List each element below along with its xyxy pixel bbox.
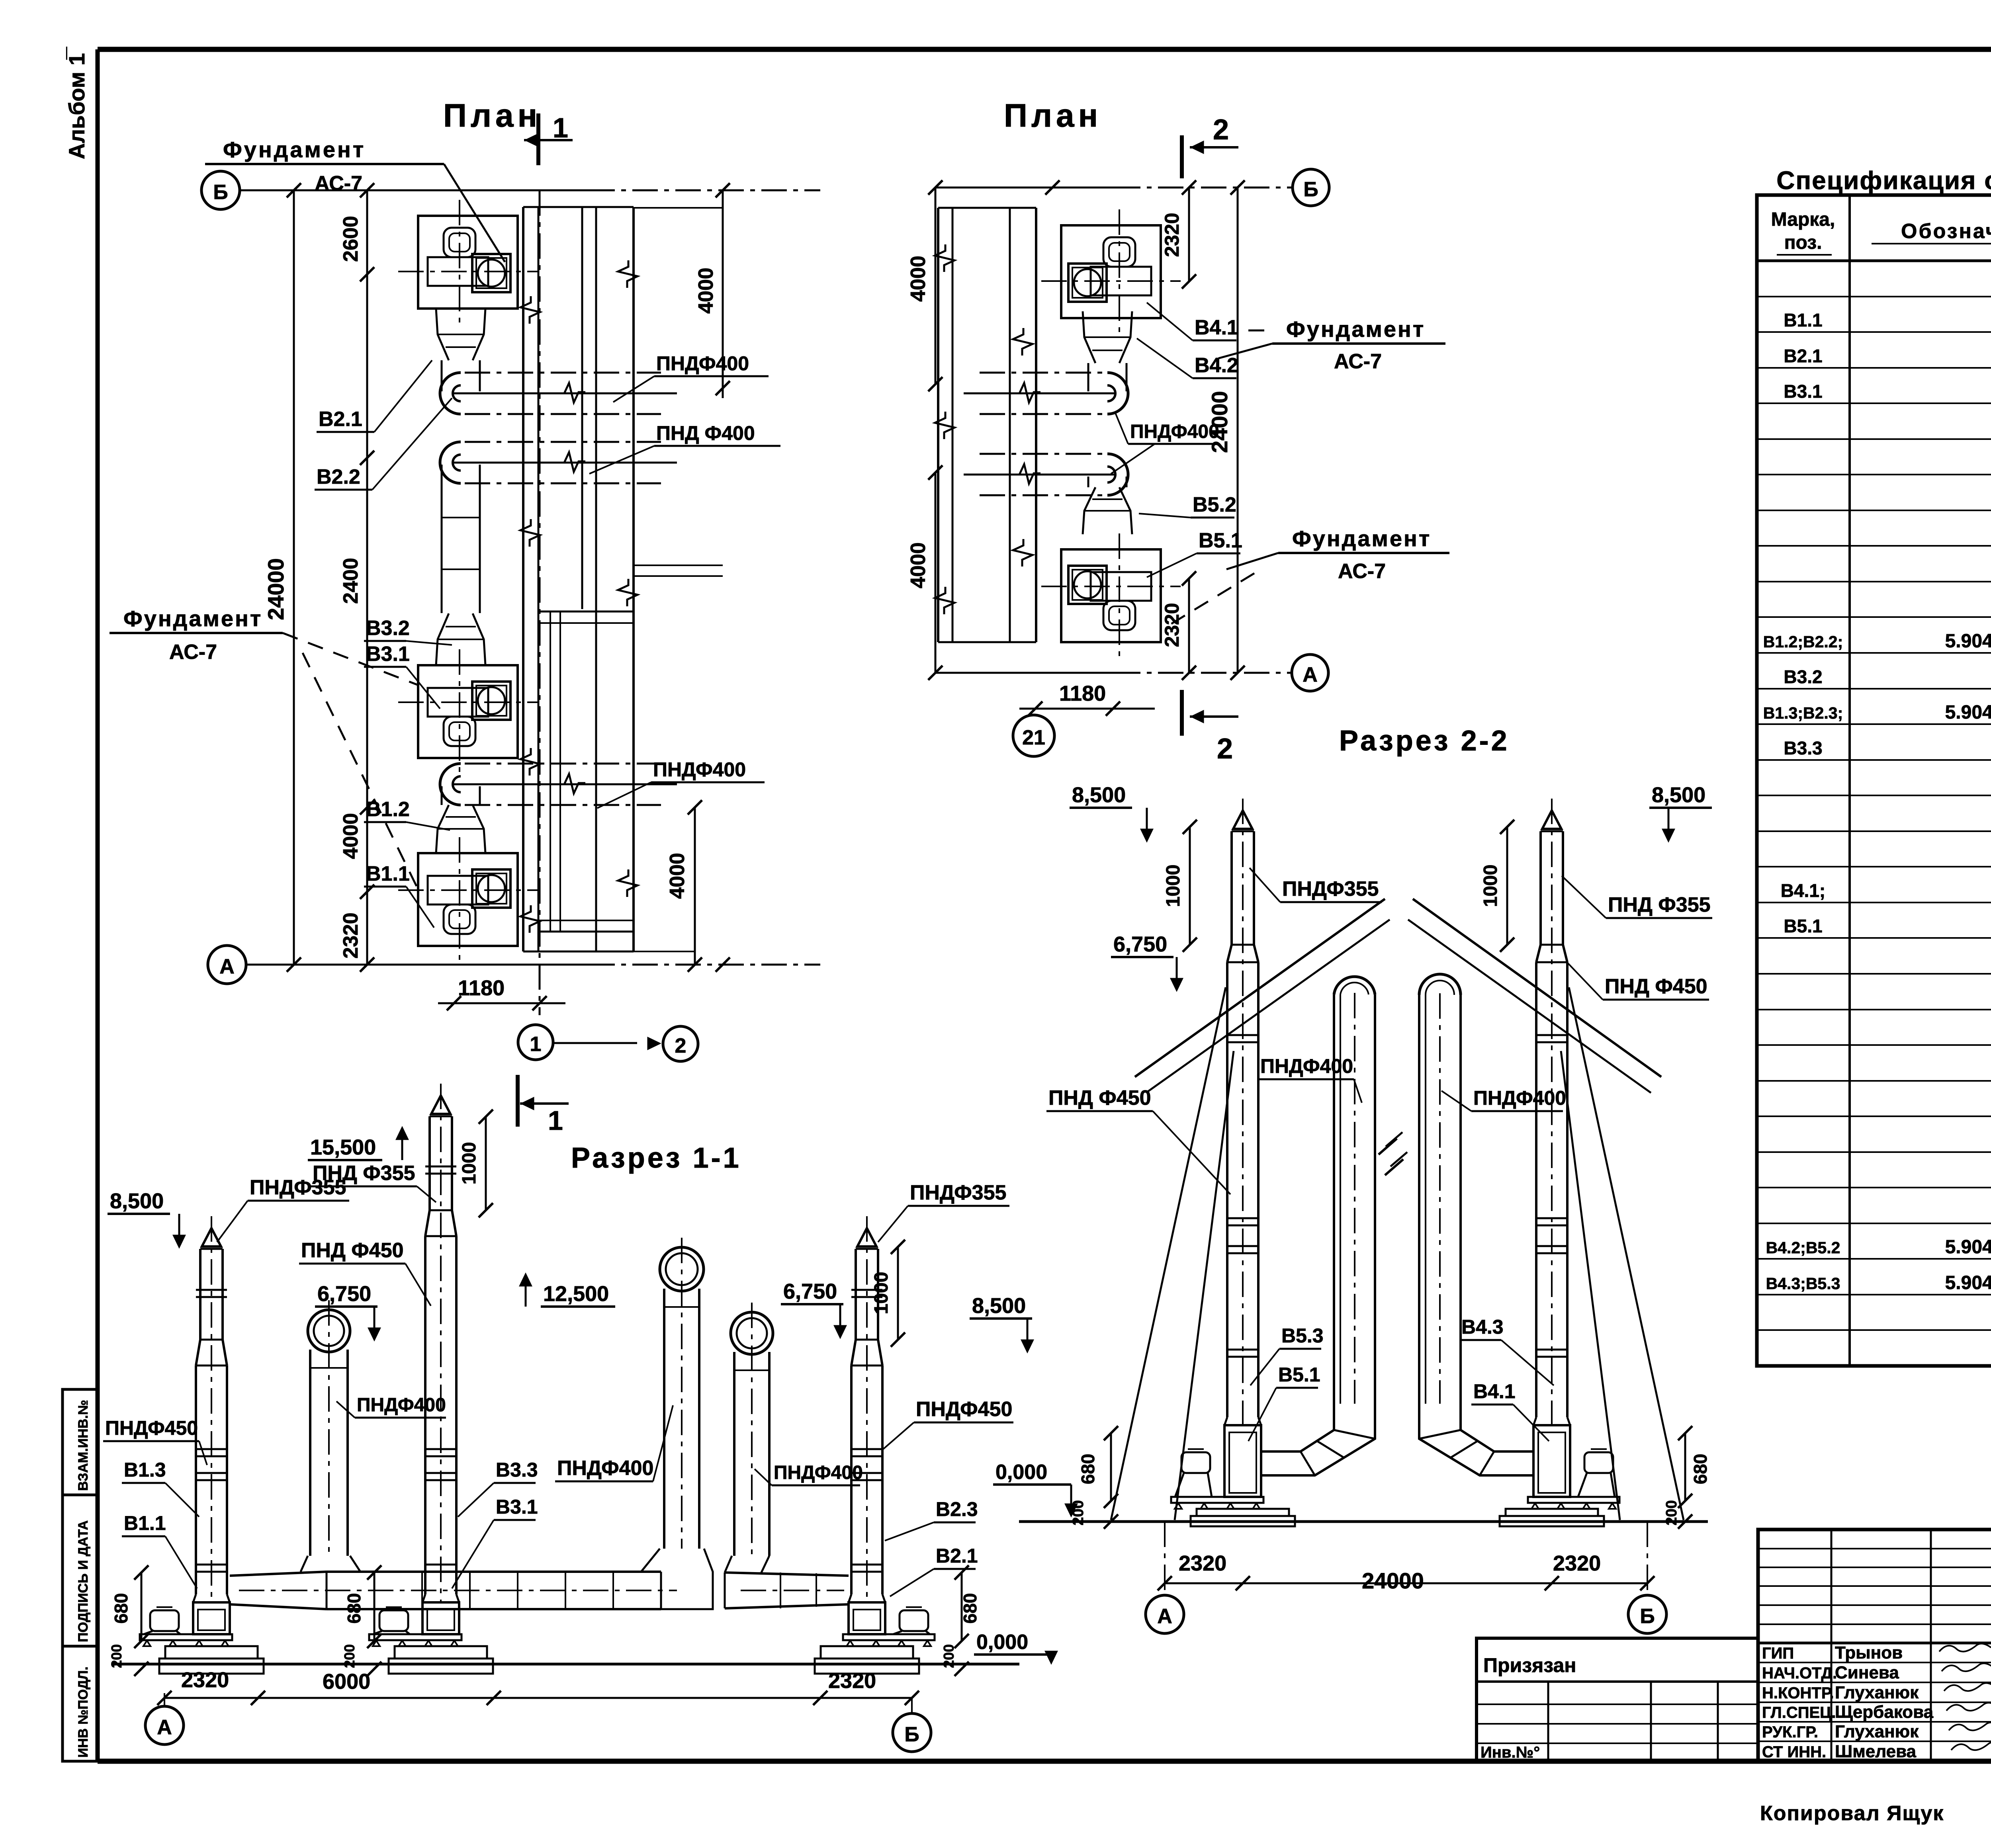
svg-text:Разрез 2-2: Разрез 2-2 xyxy=(1339,725,1510,757)
svg-text:1180: 1180 xyxy=(458,976,505,1000)
svg-text:680: 680 xyxy=(344,1593,364,1624)
spec table rows text xyxy=(1763,273,1991,1293)
axis circle Б (section 1-1) xyxy=(893,1698,931,1752)
fan unit В1.1 (plan 1) xyxy=(398,837,538,961)
svg-text:В3.3: В3.3 xyxy=(496,1459,538,1481)
dimension 680 left (section 2-2) xyxy=(1078,1426,1118,1508)
svg-text:В2.1: В2.1 xyxy=(1784,346,1822,366)
svg-text:0,000: 0,000 xyxy=(976,1631,1028,1654)
dimension 2320 upper (plan 2) xyxy=(1161,188,1196,289)
dimension 200 col3 (section 1-1) xyxy=(941,1644,969,1676)
duct U-bend ПНДФ400 upper (plan 1) xyxy=(440,373,677,414)
svg-text:Н.КОНТР.: Н.КОНТР. xyxy=(1762,1684,1834,1702)
label ПНДФ450 stack В2 (section 1-1) xyxy=(883,1398,1013,1449)
section 2-2 left stack ПНД450 xyxy=(1227,799,1258,1425)
dimension 6000 (section 1-1) xyxy=(323,1670,370,1694)
svg-text:Шмелева: Шмелева xyxy=(1835,1742,1917,1761)
building wall (plan 1) xyxy=(520,207,638,951)
dimension 680 col3 (section 1-1) xyxy=(954,1565,980,1648)
axis line А (plan 1) xyxy=(246,957,820,972)
svg-text:ПНДФ355: ПНДФ355 xyxy=(910,1181,1006,1204)
svg-text:2320: 2320 xyxy=(181,1668,229,1692)
right duct to В2 (section 1-1) xyxy=(725,1556,849,1608)
U-duct 6750 right (section 1-1) xyxy=(731,1303,773,1556)
svg-text:В2.1: В2.1 xyxy=(319,408,362,431)
svg-text:680: 680 xyxy=(111,1593,131,1624)
svg-text:2600: 2600 xyxy=(339,216,362,262)
svg-text:8,500: 8,500 xyxy=(1072,783,1126,807)
svg-text:ПНДФ450: ПНДФ450 xyxy=(105,1417,198,1439)
label ПНДФ400 (plan 2) xyxy=(1111,412,1219,474)
axis line А (plan 2) xyxy=(928,666,1292,680)
label ПНДФ400 center-right (section 2-2) xyxy=(1441,1087,1566,1111)
spec table header text xyxy=(1771,209,1991,255)
svg-text:ПОДПИСЬ И ДАТА: ПОДПИСЬ И ДАТА xyxy=(76,1520,91,1642)
plan 1 title xyxy=(443,98,541,134)
svg-text:24000: 24000 xyxy=(1362,1568,1424,1593)
svg-text:1000: 1000 xyxy=(459,1142,480,1185)
svg-text:2320: 2320 xyxy=(1161,603,1183,647)
axis circle А (plan 2) xyxy=(1292,654,1328,691)
fan unit В3.1 (plan 1) xyxy=(398,649,538,773)
annex box text Призязан xyxy=(1483,1654,1576,1676)
label В4.2 xyxy=(1137,338,1238,378)
annex box text Инв.№ xyxy=(1481,1744,1540,1761)
label ПНДФ400 (plan 1 third) xyxy=(597,758,765,808)
svg-text:В1.1: В1.1 xyxy=(1784,310,1822,330)
svg-text:Глуханюк: Глуханюк xyxy=(1835,1722,1919,1741)
label В5.1 xyxy=(1147,529,1242,577)
svg-text:2320: 2320 xyxy=(828,1669,876,1693)
svg-text:План: План xyxy=(443,98,541,134)
level 0.000 right (section 1-1) xyxy=(974,1631,1056,1662)
svg-text:ПНД Ф450: ПНД Ф450 xyxy=(1048,1086,1151,1110)
label В1.1 (section 1-1) xyxy=(122,1512,197,1588)
svg-text:СТ ИНН.: СТ ИНН. xyxy=(1762,1743,1826,1761)
svg-text:В5.3: В5.3 xyxy=(1281,1324,1324,1347)
svg-text:АС-7: АС-7 xyxy=(1334,350,1382,373)
svg-text:В3.1: В3.1 xyxy=(366,643,410,666)
svg-text:В4.3;В5.3: В4.3;В5.3 xyxy=(1766,1274,1840,1293)
transition В1.2 (plan 1) xyxy=(436,805,485,853)
U-duct 6750 left (section 1-1) xyxy=(308,1300,350,1556)
dimension 1000 right (section 1-1) xyxy=(871,1240,905,1347)
dimension 1000 right (section 2-2) xyxy=(1480,820,1514,952)
label В4.3 (section 2-2) xyxy=(1459,1316,1554,1385)
svg-text:ПНД Ф355: ПНД Ф355 xyxy=(313,1162,415,1185)
svg-text:ПНД Ф355: ПНД Ф355 xyxy=(1608,893,1711,916)
dimension 200 col2 (section 1-1) xyxy=(341,1644,381,1676)
level 6.750 right (section 1-1) xyxy=(781,1280,845,1337)
svg-text:В4.2;В5.2: В4.2;В5.2 xyxy=(1766,1239,1840,1257)
svg-text:Разрез 1-1: Разрез 1-1 xyxy=(571,1142,741,1174)
svg-text:5.904-5: 5.904-5 xyxy=(1945,1237,1991,1258)
inner shaft (plan 1) xyxy=(538,611,634,932)
roof break marks (section 2-2) xyxy=(1386,1132,1407,1166)
svg-text:Марка,: Марка, xyxy=(1771,209,1835,230)
duct U-bend ПНДФ400 upper (plan 2) xyxy=(964,373,1128,414)
svg-text:5.904-5: 5.904-5 xyxy=(1945,631,1991,652)
label В2.1 (section 1-1) xyxy=(890,1545,978,1596)
svg-text:Призязан: Призязан xyxy=(1483,1654,1576,1676)
svg-text:Фундамент: Фундамент xyxy=(123,606,262,631)
svg-text:В5.1: В5.1 xyxy=(1784,916,1822,936)
stamp grid xyxy=(1758,1530,1991,1761)
transition В3.2 (plan 1) xyxy=(436,613,485,665)
section 2-2 left fan В5.1 xyxy=(1171,1417,1295,1526)
footer Копировал Ящук xyxy=(1760,1802,1944,1825)
dimension 2320 (plan 1 left) xyxy=(339,912,362,959)
svg-text:Щербакова: Щербакова xyxy=(1835,1702,1934,1722)
fan unit В2.1 (plan 1) xyxy=(398,200,538,323)
svg-text:2320: 2320 xyxy=(339,912,362,959)
plan 1 section mark top xyxy=(524,112,573,165)
axis circle А (section 1-1) xyxy=(145,1693,184,1744)
svg-text:ВЗАМ.ИНВ.№: ВЗАМ.ИНВ.№ xyxy=(76,1400,91,1491)
label ПНД Ф450 right (section 2-2) xyxy=(1568,963,1709,1000)
guy wires right (section 2-2) xyxy=(1561,987,1684,1520)
dimension 4000 (plan 1 left) xyxy=(339,813,362,859)
plan 2 section mark top xyxy=(1182,114,1238,178)
level 8.500 right (section 1-1) xyxy=(970,1294,1033,1351)
bottom dimension line (section 2-2) xyxy=(1158,1576,1655,1590)
svg-text:2: 2 xyxy=(675,1034,686,1057)
dimension 2320 right (section 2-2) xyxy=(1553,1551,1601,1575)
stamp outer box xyxy=(1758,1530,1991,1761)
svg-text:Спецификация отопительно-венти: Спецификация отопительно-вентиляционных … xyxy=(1776,166,1991,195)
svg-text:В4.1: В4.1 xyxy=(1195,316,1238,339)
fundament AC-7 label (plan 2 top) xyxy=(1218,316,1445,373)
dimension 200 right (section 2-2) xyxy=(1663,1500,1692,1529)
transition В4.2 (plan 2) xyxy=(1083,311,1132,363)
plan 2 title xyxy=(1004,98,1102,134)
svg-text:1: 1 xyxy=(548,1106,563,1136)
label ПНДФ355 stack В2 (section 1-1) xyxy=(878,1181,1009,1242)
U-duct 12500 tall (section 1-1) xyxy=(660,1238,704,1549)
svg-text:4000: 4000 xyxy=(339,813,362,859)
dimension 200 col1 (section 1-1) xyxy=(108,1644,149,1676)
svg-text:ПНДФ400: ПНДФ400 xyxy=(357,1395,446,1416)
svg-text:Фундамент: Фундамент xyxy=(223,137,366,162)
label ПНДФ400 center-left (section 2-2) xyxy=(1258,1055,1362,1103)
duct U-bend ПНДФ400 middle (plan 1) xyxy=(440,442,677,483)
building edge extensions (plan 1) xyxy=(634,208,723,951)
svg-text:А: А xyxy=(1303,663,1318,686)
svg-text:В3.2: В3.2 xyxy=(366,617,410,640)
svg-text:4000: 4000 xyxy=(907,256,930,302)
inner duct ПНДФ400 right (section 2-2) xyxy=(1419,974,1461,1404)
transition В2.2 (plan 1) xyxy=(436,309,485,360)
svg-text:Б: Б xyxy=(904,1723,919,1746)
svg-text:АС-7: АС-7 xyxy=(169,641,217,664)
dimension 200 left (section 2-2) xyxy=(1070,1500,1118,1529)
svg-text:Фундамент: Фундамент xyxy=(1286,316,1425,342)
svg-text:1000: 1000 xyxy=(871,1272,892,1315)
axis circle А (section 2-2) xyxy=(1146,1522,1184,1633)
label В3.3 (section 1-1) xyxy=(458,1459,538,1517)
svg-text:В1.3: В1.3 xyxy=(124,1459,166,1481)
dimension 2400 (plan 1) xyxy=(339,558,362,604)
level 6.750 left (section 1-1) xyxy=(315,1282,379,1339)
svg-text:8,500: 8,500 xyxy=(972,1294,1026,1318)
svg-text:АС-7: АС-7 xyxy=(315,172,362,195)
level 8.500 left (section 1-1) xyxy=(108,1189,184,1246)
svg-text:6000: 6000 xyxy=(323,1670,370,1694)
fan В2.1 side (section 1-1) xyxy=(815,1594,935,1674)
axis circle Б (section 2-2) xyxy=(1628,1522,1666,1633)
svg-text:ПНДФ355: ПНДФ355 xyxy=(1282,877,1379,901)
svg-text:В4.1: В4.1 xyxy=(1473,1380,1516,1403)
transition В5.2 (plan 2) xyxy=(1083,487,1132,534)
svg-text:Б: Б xyxy=(213,181,228,204)
svg-text:0,000: 0,000 xyxy=(995,1461,1047,1484)
dimension 680 col1 (section 1-1) xyxy=(111,1565,149,1648)
fundament AC-7 label (plan 1 middle) xyxy=(110,606,417,888)
svg-text:В3.1: В3.1 xyxy=(1784,381,1822,402)
svg-text:24000: 24000 xyxy=(263,558,288,620)
axis circle А (plan 1) xyxy=(208,945,246,984)
axis circle Б (plan 2) xyxy=(1293,169,1329,206)
svg-text:6,750: 6,750 xyxy=(783,1280,837,1303)
section title Разрез 2-2 xyxy=(1339,725,1510,757)
svg-text:21: 21 xyxy=(1022,726,1045,749)
label В5.2 xyxy=(1139,493,1236,518)
level 15.500 (section 1-1) xyxy=(308,1128,407,1160)
label В2.3 (section 1-1) xyxy=(885,1498,978,1541)
svg-text:1: 1 xyxy=(530,1033,542,1056)
duct U-bend ПНДФ400 lower (plan 1) xyxy=(440,764,677,805)
section 2-2 right fan В4.1 xyxy=(1500,1417,1619,1526)
svg-text:200: 200 xyxy=(1663,1500,1680,1525)
svg-text:НАЧ.ОТД.: НАЧ.ОТД. xyxy=(1762,1664,1837,1682)
left column text ВЗАМ.ИНВ.№ xyxy=(76,1400,91,1491)
svg-text:В1.3;В2.3;: В1.3;В2.3; xyxy=(1763,704,1843,722)
stack В2 (section 1-1) xyxy=(851,1216,882,1602)
svg-text:Б: Б xyxy=(1640,1605,1655,1628)
svg-text:В5.1: В5.1 xyxy=(1278,1364,1320,1386)
label В5.3 (section 2-2) xyxy=(1250,1324,1324,1385)
svg-text:5.904-5: 5.904-5 xyxy=(1945,702,1991,723)
svg-text:ПНДФ400: ПНДФ400 xyxy=(1130,421,1219,442)
svg-text:200: 200 xyxy=(1070,1500,1087,1525)
section mark 2 bottom (plan 2) xyxy=(1182,690,1238,765)
duct pipe to В3 (plan 1) xyxy=(442,465,480,613)
horizontal duct (section 1-1) xyxy=(230,1549,713,1609)
spec table grid xyxy=(1757,195,1991,1366)
elbow duct right (section 2-2) xyxy=(1419,1404,1533,1475)
svg-text:2400: 2400 xyxy=(339,558,362,604)
svg-text:2: 2 xyxy=(1217,733,1233,765)
right edge dim 4000 top (plan 1) xyxy=(694,190,730,398)
svg-text:ПНД Ф400: ПНД Ф400 xyxy=(656,422,755,444)
svg-text:В5.1: В5.1 xyxy=(1199,529,1242,552)
label ПНД Ф355 right (section 2-2) xyxy=(1562,876,1712,918)
label В5.1 (section 2-2) xyxy=(1248,1364,1320,1441)
svg-text:4000: 4000 xyxy=(907,542,930,588)
fan unit В4.1 (plan 2) xyxy=(1041,209,1181,333)
label В3.1 xyxy=(364,643,440,709)
bottom dimension line (section 1-1) xyxy=(157,1691,919,1705)
svg-text:АС-7: АС-7 xyxy=(1338,560,1386,583)
svg-text:2320: 2320 xyxy=(1179,1551,1226,1575)
ground line (section 2-2) xyxy=(1019,1520,1708,1523)
svg-text:В1.2: В1.2 xyxy=(366,798,410,821)
label ПНД Ф355 stack В3 (section 1-1) xyxy=(311,1162,436,1202)
section mark 1 bottom (plan 1) xyxy=(518,1075,569,1136)
fan В1.1 side (section 1-1) xyxy=(140,1594,264,1674)
dimension chain line (plan 1) xyxy=(360,190,374,965)
label ПНДФ400 upper (section 1-1) xyxy=(336,1395,446,1418)
inner duct ПНДФ400 left (section 2-2) xyxy=(1334,977,1375,1404)
svg-text:В4.3: В4.3 xyxy=(1461,1316,1504,1338)
svg-text:В2.3: В2.3 xyxy=(936,1498,978,1520)
svg-text:4000: 4000 xyxy=(694,268,718,314)
svg-text:ПНДФ400: ПНДФ400 xyxy=(1260,1055,1353,1077)
fan unit В5.1 (plan 2) xyxy=(1041,533,1181,657)
svg-text:ПНДФ400: ПНДФ400 xyxy=(653,758,746,781)
section line 1-1 (plan 1) xyxy=(539,190,541,1015)
axis line Б (plan 1) xyxy=(240,183,820,197)
svg-text:200: 200 xyxy=(341,1644,358,1668)
label ПНДФ400 center (section 1-1) xyxy=(555,1405,673,1481)
label В4.1 (section 2-2) xyxy=(1471,1380,1549,1441)
ground line (section 1-1) xyxy=(111,1663,1019,1666)
label В1.1 xyxy=(364,862,434,928)
svg-text:Синева: Синева xyxy=(1835,1663,1899,1682)
svg-text:В1.1: В1.1 xyxy=(124,1512,166,1534)
dimension 24000 (plan 1) xyxy=(263,190,294,965)
left column text ИНВ №ПОДЛ xyxy=(76,1666,91,1758)
svg-text:ГИП: ГИП xyxy=(1762,1645,1794,1662)
svg-text:6,750: 6,750 xyxy=(1113,932,1167,956)
level 6.750 (section 2-2) xyxy=(1111,932,1182,990)
label В3.1 (section 1-1) xyxy=(452,1496,538,1588)
svg-text:12,500: 12,500 xyxy=(543,1282,609,1306)
section 2-2 right stack ПНД450 xyxy=(1536,799,1567,1425)
svg-text:ПНДФ400: ПНДФ400 xyxy=(1473,1087,1566,1109)
svg-text:1000: 1000 xyxy=(1163,865,1184,907)
svg-text:В2.1: В2.1 xyxy=(936,1545,978,1567)
svg-text:В3.3: В3.3 xyxy=(1784,738,1822,758)
svg-text:План: План xyxy=(1004,98,1102,134)
svg-text:РУК.ГР.: РУК.ГР. xyxy=(1762,1723,1818,1741)
label ПНДФ400 (plan 1 first) xyxy=(613,352,769,402)
duct pipe down from В2 (plan 1) xyxy=(442,360,480,391)
svg-text:Альбом 1̅: Альбом 1̅ xyxy=(64,47,89,159)
svg-text:Глуханюк: Глуханюк xyxy=(1835,1683,1919,1702)
svg-text:Б: Б xyxy=(1303,178,1318,201)
dimension 2320 lower (plan 2) xyxy=(1161,571,1196,673)
label В3.2 xyxy=(364,617,452,645)
label В2.1 xyxy=(317,360,432,432)
axis arrow 1-2 (plan 1) xyxy=(553,1038,659,1049)
label ПНДФ400 right (section 1-1) xyxy=(755,1462,863,1485)
svg-text:поз.: поз. xyxy=(1784,232,1822,253)
duct U-bend ПНДФ400 lower (plan 2) xyxy=(964,454,1128,495)
level 12.500 (section 1-1) xyxy=(520,1275,615,1307)
svg-text:Инв.№°: Инв.№° xyxy=(1481,1744,1540,1761)
duct pipe to В5 (plan 2) xyxy=(1088,477,1127,487)
dimension 680 col2 (section 1-1) xyxy=(344,1565,381,1648)
spec table title xyxy=(1776,166,1991,195)
label ПНДФ355 left (section 2-2) xyxy=(1250,868,1382,902)
dimension 1000 left (section 2-2) xyxy=(1163,820,1197,952)
svg-text:ПНДФ400: ПНДФ400 xyxy=(656,352,749,375)
dimension 24000 (section 2-2) xyxy=(1362,1568,1424,1593)
fan В3.1 side (section 1-1) xyxy=(369,1594,493,1674)
dimension 2320 left (section 1-1) xyxy=(181,1668,229,1692)
dimension 680 right (section 2-2) xyxy=(1678,1426,1711,1508)
duct pipe to В1 (plan 1) xyxy=(442,786,480,805)
svg-text:В1.2;В2.2;: В1.2;В2.2; xyxy=(1763,633,1843,651)
svg-text:1180: 1180 xyxy=(1059,682,1106,705)
fundament AC-7 label (plan 2 bottom) xyxy=(1163,526,1449,629)
svg-text:ГЛ.СПЕЦ.: ГЛ.СПЕЦ. xyxy=(1762,1704,1836,1721)
dimension 4000 lower (plan 2) xyxy=(907,465,943,673)
svg-text:8,500: 8,500 xyxy=(110,1189,164,1213)
center break mark (section 2-2) xyxy=(1379,1139,1403,1175)
axis circle 1 (plan 1) xyxy=(518,1025,553,1060)
svg-text:ПНД Ф450: ПНД Ф450 xyxy=(301,1239,404,1262)
svg-text:ИНВ №ПОДЛ.: ИНВ №ПОДЛ. xyxy=(76,1666,91,1758)
svg-text:ПНДФ400: ПНДФ400 xyxy=(557,1457,653,1480)
stamp signature rows xyxy=(1762,1643,1991,1761)
svg-text:В4.2: В4.2 xyxy=(1195,354,1238,377)
label ПНДФ450 stack В3 (section 1-1) xyxy=(299,1239,431,1306)
svg-text:В2.2: В2.2 xyxy=(317,465,360,488)
svg-text:1: 1 xyxy=(553,112,568,143)
dimension 1180 (plan 1) xyxy=(438,976,565,1010)
stack В1 (section 1-1) xyxy=(196,1216,227,1602)
left column text ПОДПИСЬ И ДАТА xyxy=(76,1520,91,1642)
dimension 2600 (plan 1) xyxy=(339,216,362,262)
label В2.2 xyxy=(315,398,452,490)
level 8.500 right (section 2-2) xyxy=(1649,783,1712,840)
svg-text:200: 200 xyxy=(108,1644,125,1668)
svg-text:А: А xyxy=(157,1716,172,1739)
section title Разрез 1-1 xyxy=(571,1142,741,1174)
label В1.3 (section 1-1) xyxy=(122,1459,199,1517)
guy wires left (section 2-2) xyxy=(1111,987,1234,1520)
level 0.000 (section 2-2) xyxy=(993,1461,1076,1515)
svg-text:А: А xyxy=(219,955,235,978)
svg-text:4000: 4000 xyxy=(666,853,689,899)
label ПНД Ф450 far-left (section 2-2) xyxy=(1046,1086,1230,1194)
dimension 24000 (plan 2) xyxy=(1207,188,1238,673)
dimension 1000 mid (section 1-1) xyxy=(459,1110,493,1217)
svg-text:8,500: 8,500 xyxy=(1652,783,1705,807)
axis circle 2 (plan 1) xyxy=(663,1026,698,1061)
label ПНДФ355 stack В1 (section 1-1) xyxy=(217,1176,349,1242)
axis line Б (plan 2) xyxy=(928,180,1293,195)
svg-text:2320: 2320 xyxy=(1161,213,1183,257)
elbow duct left (section 2-2) xyxy=(1261,1404,1375,1475)
svg-text:200: 200 xyxy=(941,1644,957,1668)
right edge dim 4000 bottom (plan 1) xyxy=(666,800,702,972)
svg-text:В5.2: В5.2 xyxy=(1193,493,1236,516)
building wall (plan 2) xyxy=(935,208,1036,642)
svg-text:680: 680 xyxy=(1078,1454,1098,1485)
fundament AC-7 label (plan 1 top) xyxy=(205,137,505,262)
svg-text:Обозначение: Обозначение xyxy=(1901,220,1991,243)
svg-text:1000: 1000 xyxy=(1480,865,1501,907)
dimension 4000 upper (plan 2) xyxy=(907,188,943,391)
svg-text:2320: 2320 xyxy=(1553,1551,1601,1575)
svg-text:ПНД Ф450: ПНД Ф450 xyxy=(1605,975,1707,998)
svg-text:В1.1: В1.1 xyxy=(366,862,410,885)
label ПНДФ400 (plan 1 second) xyxy=(589,422,780,474)
label В1.2 xyxy=(364,798,450,830)
